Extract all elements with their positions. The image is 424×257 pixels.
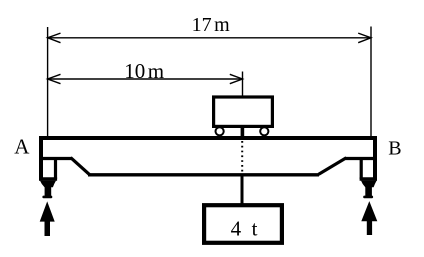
svg-text:17m: 17m	[192, 14, 231, 36]
svg-text:B: B	[388, 137, 401, 159]
svg-text:A: A	[14, 134, 30, 158]
svg-text:10m: 10m	[124, 59, 164, 83]
svg-text:4 t: 4 t	[231, 216, 258, 240]
